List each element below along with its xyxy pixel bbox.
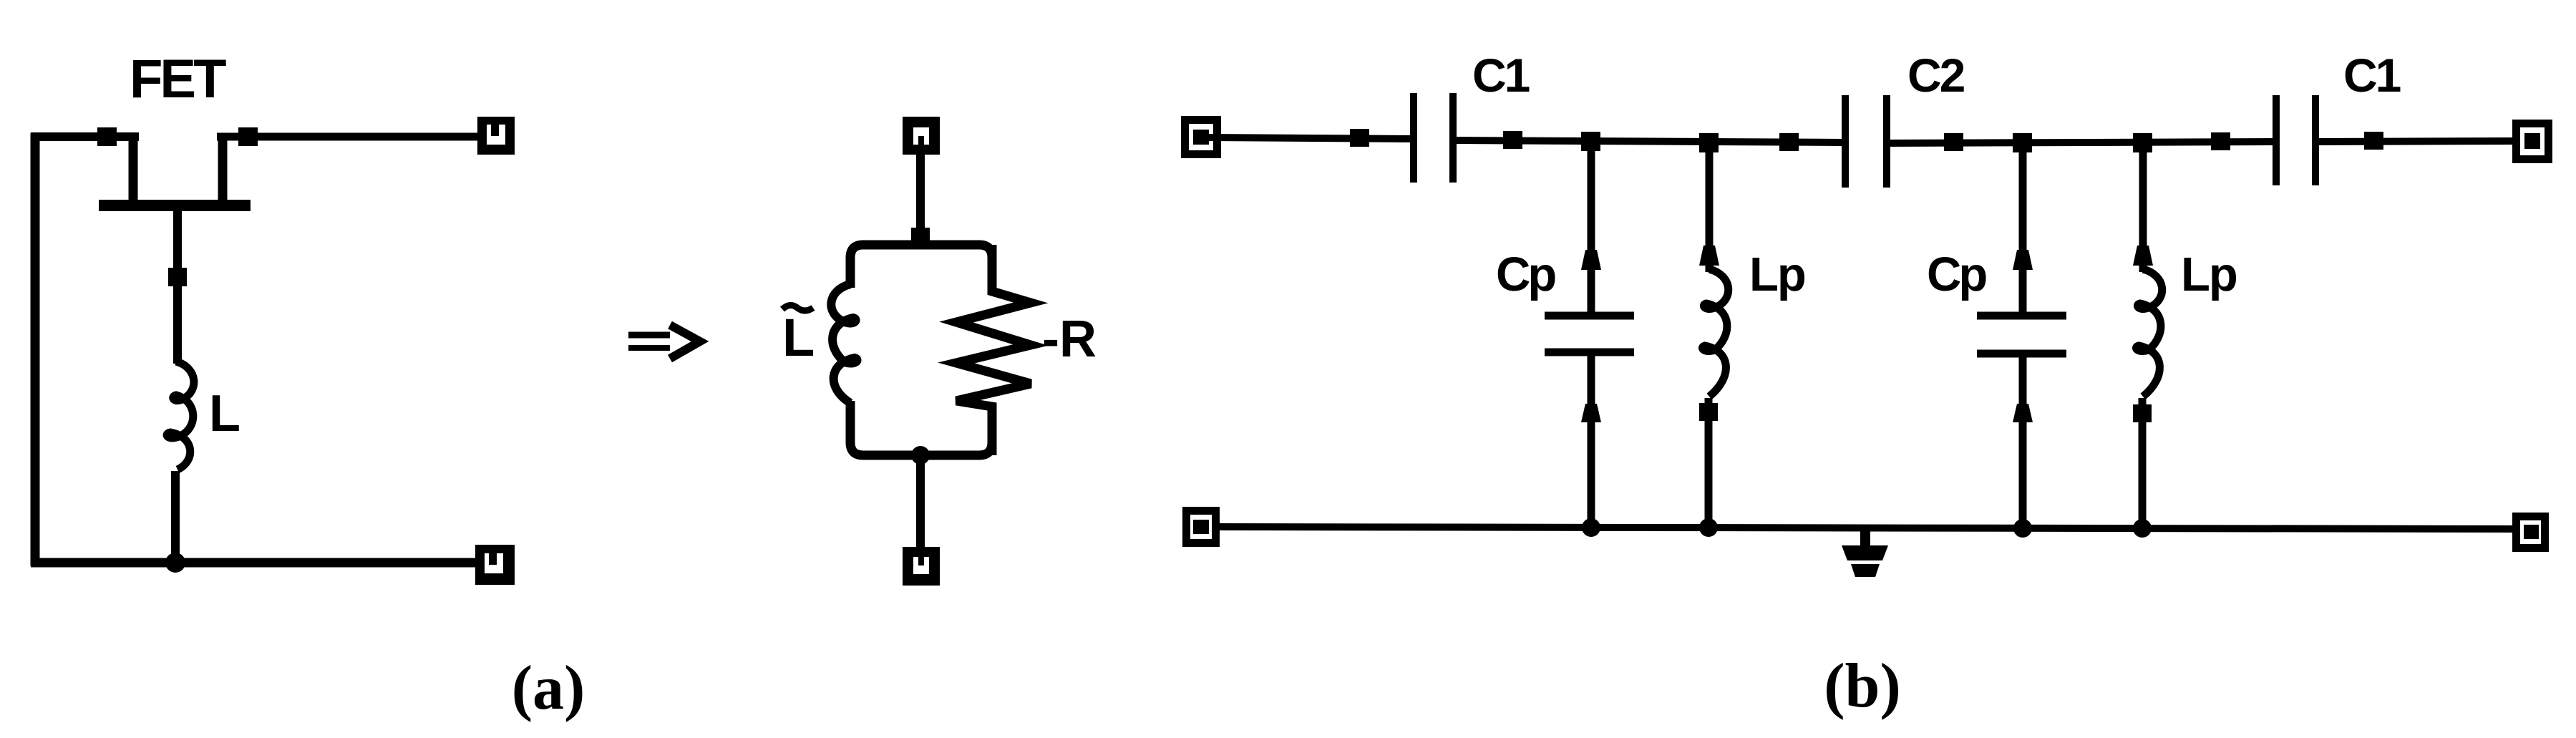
current arrow to out-port — [2364, 132, 2383, 150]
label C2 — [1907, 49, 1965, 102]
transistor Q1 (FET): gate leg, drain leg, channel bar — [99, 135, 251, 205]
capacitor Cp2 branch: lower wire — [2019, 354, 2027, 528]
wire bottom rail of (a) — [31, 558, 497, 568]
inductor L~ (left branch, bumps to the left) — [831, 284, 857, 403]
wire top terminal to loop — [916, 153, 925, 245]
wire C1 to C2 (top rail segment) — [1453, 140, 1845, 142]
wire top-left: left rail to FET gate leg — [31, 132, 139, 141]
capacitor Cp2 plates — [1977, 316, 2066, 354]
wire source down from FET bar — [173, 211, 182, 364]
terminal port P2 (a) bottom-right — [475, 545, 515, 585]
current arrow up (Cp1 upper) — [1581, 250, 1601, 270]
current arrow up (Cp2 upper) — [2013, 250, 2033, 270]
current arrow up (Cp2 lower) — [2013, 404, 2033, 422]
label C1 — [1472, 49, 1530, 102]
svg-text:C1: C1 — [2343, 49, 2401, 102]
svg-text:Cp: Cp — [1496, 248, 1555, 301]
wire gate feedback left rail (vertical) — [31, 133, 40, 566]
terminal port IN top-left (b) — [1185, 120, 1217, 155]
label FET — [130, 49, 226, 110]
inductor L coil — [167, 361, 194, 470]
junction dot bottom rail / Cp2 — [2013, 519, 2032, 538]
wire loop bottom — [850, 401, 992, 455]
label Lp (second) — [2181, 248, 2237, 301]
svg-text:Cp: Cp — [1927, 248, 1986, 301]
inductor Lp2 branch: upper wire — [2139, 143, 2147, 272]
junction node Cp1 — [1581, 132, 1600, 151]
svg-text:Lp: Lp — [1749, 248, 1805, 301]
ground symbol — [1842, 530, 1888, 577]
arrow => — [628, 325, 700, 359]
junction dot source/bottom-rail — [165, 553, 185, 573]
label L~ (L tilde) — [782, 305, 815, 367]
svg-text:(a): (a) — [512, 654, 585, 723]
current arrow after C2 — [1944, 133, 1963, 151]
terminal port bottom of equivalent circuit — [903, 547, 940, 586]
wire drain to port (top-right horizontal) — [217, 133, 481, 141]
capacitor Cp1 plates — [1545, 316, 1634, 352]
svg-text:C2: C2 — [1907, 49, 1965, 102]
current arrow up (Lp1) — [1699, 246, 1719, 266]
current arrow after C1 — [1503, 131, 1522, 149]
current arrow up (Cp1 lower) — [1581, 404, 1601, 422]
junction node Cp2 — [2013, 133, 2032, 152]
current arrow on gate wire — [97, 127, 117, 146]
junction dot below Lp1 coil — [1699, 403, 1718, 421]
label Cp (second) — [1927, 248, 1986, 301]
svg-text:C1: C1 — [1472, 49, 1530, 102]
svg-text:FET: FET — [130, 49, 226, 110]
junction dot loop bottom — [911, 446, 930, 465]
label C1 (right) — [2343, 49, 2401, 102]
wire bottom rail (b) — [1215, 527, 2517, 529]
current arrow before C2 — [1779, 133, 1799, 151]
wire loop to bottom terminal — [916, 455, 925, 548]
inductor Lp2 branch: lower wire — [2139, 398, 2147, 528]
junction dot bottom rail / Cp1 — [1582, 518, 1600, 537]
capacitor Cp2 branch: upper wire — [2019, 143, 2027, 314]
wire right C1 to out-port — [2315, 141, 2516, 142]
current arrow on drain wire — [238, 127, 258, 146]
terminal port OUT top-right (b) — [2517, 124, 2549, 160]
current arrow — [1350, 129, 1369, 147]
junction dot bottom rail / Lp2 — [2133, 519, 2152, 538]
label L — [209, 385, 240, 442]
wire C2 to right C1 (top rail segment) — [1887, 142, 2276, 143]
current arrow on top vertical wire — [911, 228, 930, 246]
wire in-port to C1 — [1209, 137, 1411, 139]
current arrow up (Lp2) — [2133, 246, 2153, 266]
inductor Lp1 branch: lower wire — [1705, 398, 1713, 528]
current arrow before right C1 — [2211, 132, 2230, 150]
terminal port bottom-right (b) — [2517, 517, 2545, 548]
wire loop top — [850, 245, 992, 293]
junction node Lp2 — [2133, 133, 2152, 152]
svg-text:L: L — [209, 385, 240, 442]
label -R — [1042, 311, 1097, 368]
terminal port bottom-left (b) — [1187, 511, 1216, 543]
capacitor C1 (left) plates — [1414, 93, 1453, 183]
caption (a) — [512, 654, 585, 723]
capacitor Cp1 branch: lower wire — [1588, 352, 1595, 528]
terminal port top of equivalent circuit — [903, 117, 940, 155]
inductor Lp2 coil — [2136, 269, 2162, 397]
svg-text:L: L — [782, 308, 815, 367]
wire inductor to bottom rail — [171, 471, 180, 563]
current arrow on source wire — [168, 268, 187, 286]
junction dot bottom rail / Lp1 — [1699, 518, 1718, 537]
svg-text:Lp: Lp — [2181, 248, 2237, 301]
svg-text:-R: -R — [1042, 311, 1097, 368]
terminal port P1 (a) top-right — [477, 117, 515, 155]
caption (b) — [1824, 651, 1901, 721]
resistor -R (right branch zigzag) — [956, 245, 1031, 455]
capacitor C1 (right) plates — [2276, 95, 2315, 185]
svg-text:(b): (b) — [1824, 651, 1901, 721]
inductor Lp1 branch: upper wire — [1706, 142, 1714, 272]
capacitor C2 plates — [1845, 95, 1887, 188]
label Lp (first) — [1749, 248, 1805, 301]
junction node Lp1 — [1699, 133, 1719, 152]
capacitor Cp1 branch: upper wire — [1588, 142, 1595, 314]
junction dot below Lp2 coil — [2133, 404, 2152, 422]
inductor Lp1 coil — [1702, 269, 1728, 397]
label Cp (first) — [1496, 248, 1555, 301]
